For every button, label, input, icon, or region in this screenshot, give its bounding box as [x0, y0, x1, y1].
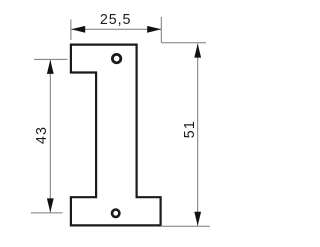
- numeral 1 plate outline: [71, 45, 161, 226]
- arrow bottom of 51: [194, 212, 201, 226]
- arrow top of 43: [47, 60, 54, 74]
- arrow right of 25,5: [147, 26, 161, 33]
- dimension line 43: [49, 60, 51, 213]
- extension line bottom of 43: [31, 212, 63, 214]
- extension line top of 51: [162, 42, 206, 44]
- svg-text:51: 51: [182, 120, 198, 138]
- extension line bottom of 51: [160, 225, 210, 227]
- extension line top of 43: [34, 58, 68, 60]
- svg-text:43: 43: [34, 126, 50, 144]
- dimension line 25,5: [71, 28, 161, 30]
- screw hole bottom: [112, 210, 119, 217]
- screw hole top: [112, 54, 120, 62]
- arrow bottom of 43: [47, 198, 54, 212]
- dimension line 51: [197, 44, 199, 226]
- extension line left of 25,5: [70, 20, 72, 41]
- extension line right of 25,5: [160, 17, 162, 43]
- arrow left of 25,5: [71, 26, 85, 33]
- svg-text:25,5: 25,5: [100, 12, 131, 28]
- arrow top of 51: [194, 44, 201, 58]
